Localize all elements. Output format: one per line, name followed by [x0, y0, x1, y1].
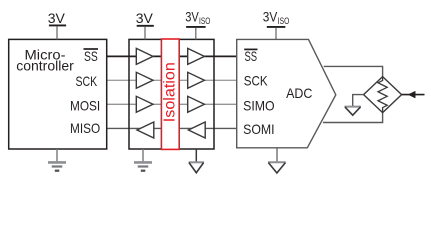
ground (isolation left, 3-bar): [142, 149, 144, 162]
ADC U2 outline: [237, 39, 336, 147]
svg-text:3V: 3V: [136, 10, 154, 26]
wire ADC return bottom: [323, 113, 383, 123]
svg-text:SOMI: SOMI: [243, 121, 275, 137]
ground (microcontroller, 3-bar): [56, 149, 58, 162]
svg-text:3V: 3V: [48, 10, 66, 26]
ground (ADC, triangle): [276, 148, 278, 162]
wire ADC excitation top: [324, 66, 383, 76]
svg-text:controller: controller: [16, 58, 74, 74]
sensor input arrow: [402, 94, 425, 96]
svg-text:SIMO: SIMO: [243, 97, 275, 113]
isolation barrier bar: [161, 39, 179, 149]
svg-text:ISO: ISO: [278, 16, 290, 27]
buffer B2 (SCK, left, right-pointing): [136, 72, 153, 88]
wire MOSI (microcontroller to ADC): [106, 103, 237, 105]
svg-text:SCK: SCK: [244, 72, 268, 88]
buffer B8 (SOMI, right, left-pointing): [188, 122, 205, 138]
sensor resistor zigzag: [378, 77, 387, 113]
svg-text:3V: 3V: [263, 8, 278, 24]
ground (sensor, triangle): [353, 95, 364, 107]
sensor bridge diamond: [364, 77, 402, 113]
svg-text:MISO: MISO: [70, 120, 100, 136]
ground (isolation right, triangle): [195, 149, 197, 162]
microcontroller U1 box: [9, 39, 107, 149]
svg-text:SS: SS: [245, 48, 258, 64]
buffer B4 (MISO, left, left-pointing): [137, 122, 154, 138]
svg-text:MOSI: MOSI: [70, 98, 100, 114]
svg-text:3V: 3V: [185, 8, 199, 24]
buffer B5 (SS, right, right-pointing): [188, 48, 205, 64]
buffer B1 (SS, left, right-pointing): [136, 48, 153, 64]
buffer B6 (SCK, right, right-pointing): [188, 72, 205, 88]
buffer B7 (SIMO, right, right-pointing): [188, 96, 205, 112]
wire SS (microcontroller to ADC): [106, 55, 237, 57]
isolation block box: [129, 39, 214, 149]
svg-text:SS: SS: [84, 48, 98, 64]
wire MISO (microcontroller to ADC): [106, 127, 237, 129]
svg-text:Isolation: Isolation: [161, 62, 178, 122]
svg-text:SCK: SCK: [76, 73, 98, 89]
svg-text:ISO: ISO: [199, 16, 210, 27]
buffer B3 (MOSI, left, right-pointing): [136, 96, 153, 112]
wire SCK (microcontroller to ADC): [106, 79, 237, 81]
svg-text:ADC: ADC: [286, 85, 312, 101]
